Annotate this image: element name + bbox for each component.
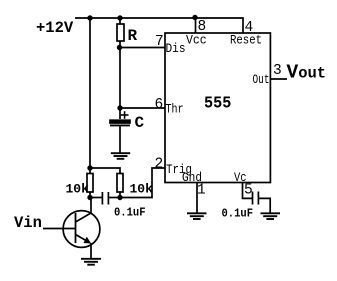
svg-text:Thr: Thr: [166, 102, 184, 117]
svg-text:Out: Out: [253, 72, 270, 87]
svg-text:10k: 10k: [66, 182, 90, 197]
svg-text:C: C: [135, 114, 145, 132]
svg-text:R: R: [128, 27, 138, 45]
svg-text:6: 6: [155, 97, 164, 113]
svg-text:3: 3: [273, 63, 282, 79]
svg-text:8: 8: [198, 19, 207, 35]
svg-text:Vin: Vin: [14, 214, 42, 232]
svg-text:+12V: +12V: [36, 19, 74, 37]
svg-text:555: 555: [204, 95, 231, 114]
svg-text:10k: 10k: [130, 182, 154, 197]
svg-text:1: 1: [197, 183, 206, 199]
svg-text:4: 4: [245, 20, 254, 36]
svg-text:Dis: Dis: [166, 41, 186, 56]
svg-text:0.1uF: 0.1uF: [222, 207, 254, 221]
svg-text:2: 2: [155, 157, 164, 173]
svg-text:5: 5: [244, 183, 253, 199]
svg-text:7: 7: [155, 34, 164, 50]
svg-text:Vout: Vout: [287, 62, 327, 84]
svg-text:0.1uF: 0.1uF: [114, 206, 146, 220]
